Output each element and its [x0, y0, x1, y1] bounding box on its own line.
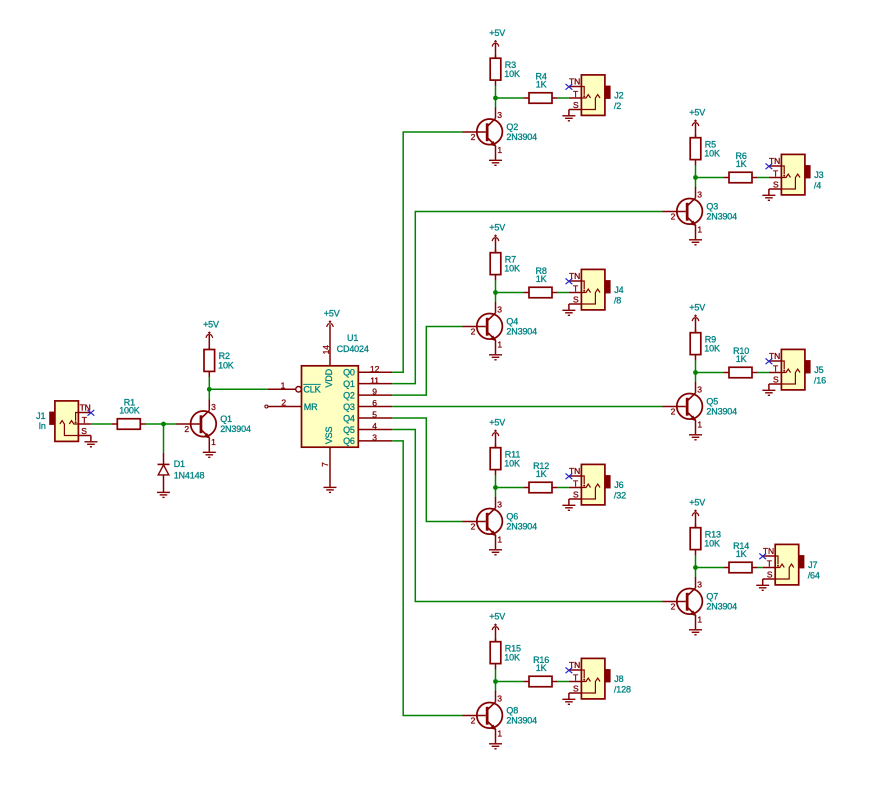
wire: [208, 377, 210, 390]
svg-text:S: S: [767, 570, 773, 580]
resistor R5 10K pull-up: [690, 135, 720, 166]
svg-text:6: 6: [372, 398, 377, 408]
svg-text:Q5: Q5: [343, 425, 355, 435]
wire: [568, 110, 570, 116]
svg-text:10K: 10K: [704, 149, 720, 159]
svg-text:10K: 10K: [704, 344, 720, 354]
wire: [495, 86, 497, 99]
pin 11 Q1 of U1: [343, 375, 392, 389]
resistor R12 1K series: [523, 461, 557, 493]
no-connect flag TN of J1: [88, 410, 95, 416]
svg-text:+5V: +5V: [324, 309, 340, 319]
transistor Q3 2N3904: [663, 187, 738, 239]
svg-text:1K: 1K: [736, 549, 747, 559]
svg-text:S: S: [81, 426, 87, 436]
svg-text:2: 2: [471, 326, 476, 336]
svg-text:+5V: +5V: [489, 223, 505, 233]
svg-text:2: 2: [471, 132, 476, 142]
wire Q6 (pin 3) to Q8 base: [392, 441, 462, 716]
svg-text:2N3904: 2N3904: [506, 521, 537, 531]
no-connect flag TN of J3: [766, 163, 773, 169]
ground (emitter of Q1): [203, 452, 216, 457]
svg-text:10K: 10K: [704, 539, 720, 549]
ground (emitter of Q7): [689, 630, 702, 635]
svg-text:J1: J1: [36, 411, 45, 421]
wire: [208, 334, 210, 349]
connector J1 input jack: [36, 401, 91, 442]
svg-text:Q6: Q6: [343, 436, 355, 446]
wire: [90, 436, 92, 442]
no-connect flag TN of J6: [566, 473, 573, 479]
resistor R9 10K pull-up: [690, 330, 720, 361]
wire: [558, 681, 569, 683]
wire: [758, 177, 769, 179]
resistor R13 10K pull-up: [690, 525, 721, 556]
power +5V (divider /64 stage): [689, 498, 705, 516]
pin 6 Q3 of U1: [343, 398, 392, 412]
wire: [495, 488, 497, 498]
pin 1 CLK of U1 (inverted clock input): [268, 380, 301, 392]
svg-text:/128: /128: [614, 685, 631, 695]
power +5V (divider /32 stage): [489, 418, 505, 437]
svg-text:3: 3: [697, 189, 702, 199]
no-connect flag TN of J4: [566, 278, 573, 284]
node collector of Q8: [493, 679, 498, 684]
svg-text:/2: /2: [614, 101, 621, 111]
connector J2 output jack /2: [569, 75, 624, 116]
no-connect flag TN of J8: [566, 667, 573, 673]
wire Q3 (pin 6) to Q5 base: [392, 406, 662, 408]
svg-text:2N3904: 2N3904: [506, 715, 537, 725]
svg-text:3: 3: [697, 579, 702, 589]
ground (emitter of Q6): [489, 550, 502, 555]
wire Q4 (pin 5) to Q6 base: [392, 418, 462, 522]
svg-text:MR: MR: [304, 402, 318, 412]
svg-text:2: 2: [281, 397, 286, 407]
svg-text:1: 1: [497, 728, 502, 738]
no-connect flag TN of J5: [766, 358, 773, 364]
ground (emitter of Q3): [689, 240, 702, 245]
svg-text:T: T: [573, 283, 578, 293]
wire: [696, 372, 724, 374]
node collector of Q7: [693, 565, 698, 570]
svg-text:1K: 1K: [536, 274, 547, 284]
wire: [568, 693, 570, 699]
svg-text:Q5: Q5: [706, 396, 718, 406]
resistor R11 10K pull-up: [490, 445, 520, 476]
ground (sleeve of J4): [562, 310, 575, 315]
svg-text:10K: 10K: [504, 264, 520, 274]
power +5V (Q1 collector pull-up): [203, 319, 219, 338]
svg-text:2: 2: [471, 521, 476, 531]
svg-text:2: 2: [671, 211, 676, 221]
wire: [495, 98, 497, 108]
svg-text:1: 1: [697, 224, 702, 234]
svg-text:J7: J7: [808, 560, 817, 570]
svg-text:/64: /64: [808, 571, 820, 581]
svg-text:3: 3: [211, 402, 216, 412]
svg-text:2: 2: [471, 715, 476, 725]
wire: [208, 389, 210, 399]
ground (sleeve of J5): [762, 390, 775, 395]
svg-text:Q3: Q3: [343, 402, 355, 412]
svg-text:11: 11: [370, 375, 379, 385]
svg-text:S: S: [773, 180, 779, 190]
wire: [758, 567, 763, 569]
svg-text:1K: 1K: [536, 80, 547, 90]
svg-text:S: S: [573, 684, 579, 694]
transistor Q2 2N3904: [463, 108, 538, 160]
no-connect flag TN of J7: [759, 553, 766, 559]
svg-text:1K: 1K: [536, 469, 547, 479]
svg-text:1: 1: [497, 339, 502, 349]
svg-text:In: In: [39, 421, 46, 431]
node collector of Q3: [693, 175, 698, 180]
svg-text:+5V: +5V: [689, 303, 705, 313]
svg-text:VDD: VDD: [324, 368, 334, 387]
wire: [758, 372, 769, 374]
wire: [695, 555, 697, 568]
wire: [768, 384, 770, 390]
wire Q1 (pin 11) to Q3 base: [392, 212, 662, 384]
svg-text:1K: 1K: [736, 354, 747, 364]
svg-text:T: T: [573, 478, 578, 488]
node R1/D1/Q1 base: [161, 422, 166, 427]
resistor R10 1K series: [723, 346, 757, 378]
wire Q5 (pin 4) to Q7 base: [392, 429, 662, 601]
svg-text:7: 7: [320, 462, 330, 467]
resistor R2 10K pull-up: [204, 347, 234, 378]
wire: [496, 487, 524, 489]
svg-text:1: 1: [497, 145, 502, 155]
resistor R1 100K input: [112, 398, 146, 430]
pin 4 Q5 of U1: [343, 421, 392, 435]
svg-text:+5V: +5V: [689, 498, 705, 508]
svg-text:10K: 10K: [504, 69, 520, 79]
transistor Q7 2N3904: [663, 577, 738, 629]
power +5V (divider /2 stage): [489, 28, 505, 47]
wire: [762, 579, 764, 585]
wire: [495, 280, 497, 293]
svg-text:3: 3: [372, 433, 377, 443]
svg-text:J8: J8: [614, 674, 623, 684]
svg-text:S: S: [573, 100, 579, 110]
wire: [695, 373, 697, 383]
wire: [558, 487, 569, 489]
wire: [496, 292, 524, 294]
svg-text:J4: J4: [614, 285, 623, 295]
svg-text:2N3904: 2N3904: [506, 132, 537, 142]
pin 14 VDD of U1: [321, 325, 331, 366]
ground (emitter of Q2): [489, 160, 502, 165]
svg-text:Q6: Q6: [506, 511, 518, 521]
ground (sleeve of J8): [562, 699, 575, 704]
svg-text:CLK: CLK: [303, 385, 320, 395]
ground (emitter of Q4): [489, 355, 502, 360]
svg-text:/8: /8: [614, 296, 621, 306]
transistor Q4 2N3904: [463, 302, 538, 354]
ground (D1 anode): [157, 492, 170, 497]
pin 2 MR of U1 (unconnected): [265, 397, 302, 408]
wire: [495, 669, 497, 682]
transistor Q1 2N3904 input buffer: [176, 400, 251, 452]
svg-text:T: T: [767, 558, 772, 568]
wire Q2 (pin 9) to Q4 base: [392, 327, 462, 396]
svg-text:1N4148: 1N4148: [174, 471, 205, 481]
wire: [768, 189, 770, 195]
svg-text:T: T: [773, 363, 778, 373]
svg-text:1K: 1K: [736, 159, 747, 169]
svg-text:1K: 1K: [536, 663, 547, 673]
svg-text:T: T: [82, 415, 87, 425]
connector J7 output jack /64: [763, 544, 820, 585]
svg-text:2: 2: [671, 406, 676, 416]
transistor Q6 2N3904: [463, 497, 538, 549]
power +5V (divider /4 stage): [689, 108, 705, 127]
svg-text:D1: D1: [174, 459, 185, 469]
svg-text:9: 9: [372, 387, 377, 397]
wire: [695, 165, 697, 178]
svg-text:14: 14: [321, 345, 331, 355]
wire: [558, 292, 569, 294]
ground (sleeve of J3): [762, 195, 775, 200]
pin 3 Q6 of U1: [343, 433, 392, 447]
IC U1 CD4024 body: [302, 333, 369, 447]
connector J6 output jack /32: [569, 464, 626, 505]
svg-text:T: T: [573, 672, 578, 682]
resistor R16 1K series: [523, 655, 557, 687]
svg-text:+5V: +5V: [489, 28, 505, 38]
wire: [695, 178, 697, 188]
power +5V (divider /16 stage): [689, 303, 705, 322]
wire: [495, 475, 497, 488]
power +5V (U1 VDD): [324, 309, 340, 328]
wire: [496, 681, 524, 683]
svg-text:Q3: Q3: [706, 201, 718, 211]
node collector of Q4: [493, 290, 498, 295]
svg-text:J6: J6: [614, 480, 623, 490]
ground (emitter of Q8): [489, 744, 502, 749]
wire: [496, 97, 524, 99]
svg-text:Q8: Q8: [506, 705, 518, 715]
svg-text:+5V: +5V: [203, 319, 219, 329]
resistor R7 10K pull-up: [490, 250, 520, 281]
wire: [568, 304, 570, 310]
ground (sleeve of J1): [84, 442, 97, 447]
svg-text:1: 1: [497, 534, 502, 544]
power +5V (divider /8 stage): [489, 223, 505, 242]
svg-text:+5V: +5V: [689, 108, 705, 118]
svg-text:Q7: Q7: [706, 591, 718, 601]
resistor R8 1K series: [523, 266, 557, 298]
connector J5 output jack /16: [769, 349, 826, 390]
svg-text:5: 5: [372, 410, 377, 420]
svg-text:+5V: +5V: [489, 612, 505, 622]
svg-text:S: S: [573, 295, 579, 305]
svg-text:100K: 100K: [119, 406, 140, 416]
ground (U1 VSS): [324, 487, 337, 492]
svg-text:+5V: +5V: [489, 418, 505, 428]
ground (sleeve of J7): [756, 585, 769, 590]
wire: [91, 423, 112, 425]
wire Q0 (pin 12) to Q2 base: [392, 132, 462, 372]
pin 5 Q4 of U1: [343, 410, 392, 424]
svg-text:/32: /32: [614, 491, 626, 501]
svg-text:3: 3: [497, 304, 502, 314]
svg-text:2N3904: 2N3904: [506, 326, 537, 336]
svg-text:Q4: Q4: [506, 316, 518, 326]
power +5V (divider /128 stage): [489, 612, 505, 631]
ground (emitter of Q5): [689, 435, 702, 440]
connector J3 output jack /4: [769, 154, 824, 195]
node collector of Q5: [693, 370, 698, 375]
svg-text:2N3904: 2N3904: [220, 424, 251, 434]
ground (sleeve of J2): [562, 116, 575, 121]
svg-text:CD4024: CD4024: [337, 344, 369, 354]
connector J4 output jack /8: [569, 269, 624, 310]
wire: [568, 499, 570, 505]
svg-text:J5: J5: [814, 365, 823, 375]
svg-text:1: 1: [211, 437, 216, 447]
transistor Q5 2N3904: [663, 382, 738, 434]
node collector of Q6: [493, 485, 498, 490]
svg-text:Q4: Q4: [343, 413, 355, 423]
transistor Q8 2N3904: [463, 691, 538, 743]
wire: [695, 568, 697, 578]
wire: [495, 293, 497, 303]
svg-text:/16: /16: [814, 376, 826, 386]
svg-text:2N3904: 2N3904: [706, 601, 737, 611]
svg-text:J3: J3: [814, 170, 823, 180]
svg-text:3: 3: [497, 499, 502, 509]
svg-text:Q2: Q2: [343, 390, 355, 400]
svg-text:2: 2: [184, 424, 189, 434]
pin 9 Q2 of U1: [343, 387, 392, 401]
wire: [558, 97, 569, 99]
ground (sleeve of J6): [562, 505, 575, 510]
svg-text:Q1: Q1: [343, 379, 355, 389]
svg-text:Q2: Q2: [506, 122, 518, 132]
svg-text:2N3904: 2N3904: [706, 211, 737, 221]
pin 12 Q0 of U1: [343, 364, 392, 378]
svg-text:Q1: Q1: [220, 414, 232, 424]
connector J8 output jack /128: [569, 658, 631, 699]
svg-text:3: 3: [497, 693, 502, 703]
svg-text:Q0: Q0: [343, 368, 355, 378]
resistor R15 10K pull-up: [490, 639, 521, 670]
svg-text:10K: 10K: [504, 459, 520, 469]
svg-text:3: 3: [697, 384, 702, 394]
svg-text:S: S: [573, 490, 579, 500]
resistor R14 1K series: [723, 541, 757, 573]
resistor R6 1K series: [723, 151, 757, 183]
diode D1 1N4148 clamp: [158, 453, 205, 492]
svg-text:2N3904: 2N3904: [706, 406, 737, 416]
wire: [695, 360, 697, 373]
svg-text:J2: J2: [614, 90, 623, 100]
svg-text:1: 1: [697, 419, 702, 429]
svg-text:/4: /4: [814, 181, 821, 191]
wire: [146, 423, 177, 425]
svg-text:T: T: [573, 89, 578, 99]
svg-text:1: 1: [281, 380, 286, 390]
wire: [163, 424, 165, 453]
no-connect flag TN of J2: [566, 84, 573, 90]
svg-text:1: 1: [697, 614, 702, 624]
svg-text:4: 4: [372, 421, 377, 431]
node collector of Q2: [493, 96, 498, 101]
svg-text:S: S: [773, 375, 779, 385]
wire: [495, 682, 497, 692]
svg-text:10K: 10K: [218, 360, 234, 370]
node Q1 collector / CLK: [207, 387, 212, 392]
pin 7 VSS of U1: [320, 447, 330, 487]
wire: [696, 567, 724, 569]
resistor R4 1K series: [523, 72, 557, 104]
wire: [696, 177, 724, 179]
svg-text:U1: U1: [347, 333, 358, 343]
wire CLK net: [209, 388, 268, 390]
svg-text:12: 12: [370, 364, 380, 374]
svg-text:VSS: VSS: [324, 426, 334, 444]
svg-text:2: 2: [671, 601, 676, 611]
resistor R3 10K pull-up: [490, 55, 520, 86]
svg-text:10K: 10K: [504, 653, 520, 663]
svg-text:3: 3: [497, 110, 502, 120]
svg-text:T: T: [773, 168, 778, 178]
